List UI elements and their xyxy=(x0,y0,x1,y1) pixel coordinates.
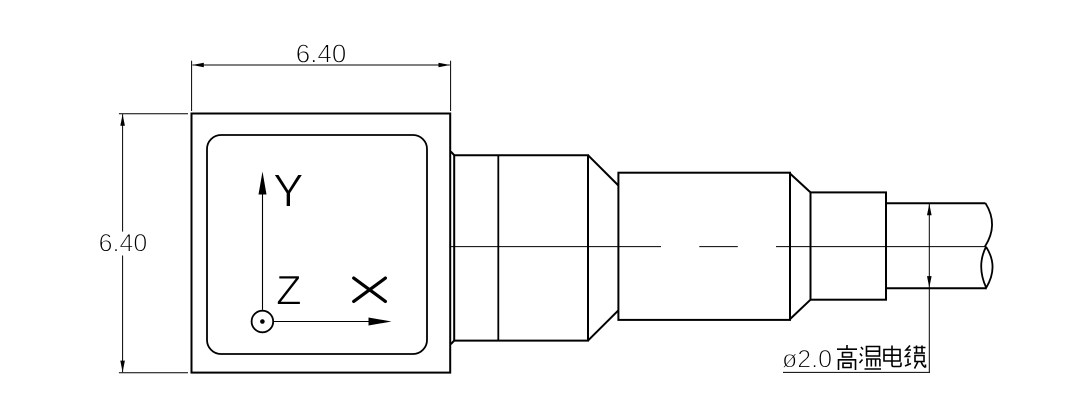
cable diameter top arrowhead xyxy=(927,204,932,216)
svg-text:Z: Z xyxy=(276,267,302,314)
X axis label xyxy=(354,278,386,301)
X axis arrowhead xyxy=(369,318,392,326)
cable break lens xyxy=(981,247,992,288)
dimension 6.40 left: extension line bottom xyxy=(119,372,188,374)
centerline short dash xyxy=(699,246,738,248)
Y axis arrowhead xyxy=(259,172,267,195)
dimension 6.40 left: top arrowhead xyxy=(120,114,125,126)
svg-text:6.40: 6.40 xyxy=(99,230,148,258)
cable diameter bottom arrowhead xyxy=(927,276,932,288)
svg-text:ø2.0: ø2.0 xyxy=(782,346,832,374)
Y axis shaft xyxy=(262,194,264,310)
dimension 6.40 left: dimension line lower segment xyxy=(122,256,124,373)
dimension 6.40 left: bottom arrowhead xyxy=(120,361,125,373)
dimension 6.40 top: extension line right xyxy=(450,61,452,111)
cable top line xyxy=(886,202,986,204)
leader underline xyxy=(783,371,930,373)
dimension 6.40 top: dimension line xyxy=(193,64,450,66)
cable label CJK: 高 xyxy=(837,345,857,370)
X axis shaft xyxy=(274,321,369,323)
taper 1 top edge xyxy=(588,155,618,185)
dimension 6.40 top: extension line left xyxy=(191,61,193,111)
cable label CJK: 电 xyxy=(884,346,901,367)
svg-text:Y: Y xyxy=(273,164,304,216)
origin circle (Z axis out of plane) xyxy=(252,311,274,333)
svg-text:6.40: 6.40 xyxy=(296,39,347,69)
sensor body outer square xyxy=(192,114,451,373)
centerline long segment 2 xyxy=(776,246,985,248)
dimension 6.40 left: dimension line upper segment xyxy=(122,114,124,231)
taper 1 bottom edge xyxy=(588,310,618,340)
connector barrel (section 2) xyxy=(618,173,790,320)
connector flange face with chamfers xyxy=(451,152,454,345)
taper 2 top edge xyxy=(790,174,811,193)
cable bottom line xyxy=(886,287,986,289)
dimension 6.40 top: right arrowhead xyxy=(439,63,451,68)
centerline long segment 1 xyxy=(451,246,662,248)
origin dot xyxy=(260,319,265,324)
cable label CJK: 温 xyxy=(860,347,882,370)
connector section 1 outline xyxy=(454,155,588,340)
cable diameter dimension line xyxy=(928,204,930,373)
cable break upper curve xyxy=(985,203,992,247)
sensor body inner rounded square xyxy=(207,135,427,354)
dimension 6.40 left: extension line top xyxy=(119,113,188,115)
connector section 3 xyxy=(811,192,887,299)
dimension 6.40 top: left arrowhead xyxy=(192,63,204,68)
cable label CJK: 缆 xyxy=(905,346,926,369)
taper 2 bottom edge xyxy=(790,300,811,319)
connector section divider xyxy=(497,155,499,340)
